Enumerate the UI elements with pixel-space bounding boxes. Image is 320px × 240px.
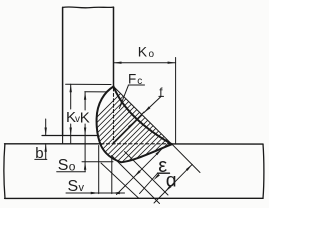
- Sv right arrow (points left): [112, 192, 120, 194]
- weld face curve (concave, thick): [114, 87, 172, 145]
- horizontal plate top edge hidden under weld (dashed): [101, 143, 172, 145]
- diagonal line L3: [101, 163, 139, 199]
- Kv dimension shaft upper: [70, 84, 72, 109]
- b bottom arrow: [45, 144, 47, 152]
- svg-text:v: v: [79, 182, 85, 194]
- throat line from root to face: [113, 112, 144, 143]
- horizontal plate right end: [262, 144, 265, 198]
- epsilon leader line: [140, 173, 158, 194]
- Kv extension line (from weld top vertex): [66, 83, 111, 85]
- f label underline: [159, 95, 164, 97]
- throat line arrow on face curve: [128, 122, 135, 129]
- K / So dimension shaft upper: [84, 92, 86, 110]
- Sv dimension line left part with label underline: [66, 192, 99, 194]
- horizontal plate top edge left: [5, 143, 100, 145]
- N0 lower arrow on L1: [134, 170, 141, 177]
- svg-text:S: S: [58, 157, 69, 174]
- b dimension upper shaft: [45, 119, 47, 136]
- Sv left arrow (points right): [91, 192, 99, 194]
- f leader arrow: [144, 106, 151, 112]
- dimension Ko line: [114, 62, 176, 64]
- a line upper arrow on B: [186, 164, 193, 171]
- b dimension lower shaft: [45, 144, 47, 160]
- b label underline: [35, 158, 47, 160]
- So label underline: [57, 171, 86, 173]
- horizontal plate top edge right: [172, 143, 263, 145]
- b top arrow: [45, 128, 47, 136]
- Ko left arrow: [114, 62, 122, 64]
- hidden plate right edge inside weld (dashed): [113, 88, 115, 144]
- K bottom arrow: [84, 128, 86, 136]
- diagonal line B (face line extended beyond toe): [172, 144, 200, 173]
- dimension Ko right extension line: [175, 58, 177, 144]
- K top arrow: [84, 92, 86, 100]
- Sv dimension line right tail: [112, 192, 125, 194]
- So arrow (up): [84, 162, 86, 170]
- diagonal line L2: [125, 152, 169, 196]
- epsilon label underline: [158, 172, 170, 174]
- svg-text:c: c: [137, 76, 142, 87]
- Fc label underline: [128, 84, 144, 86]
- perpendicular dimension line N0: [117, 149, 163, 195]
- svg-text:ɑ: ɑ: [166, 169, 177, 191]
- svg-text:K: K: [80, 109, 90, 126]
- Ko right arrow: [168, 62, 176, 64]
- K / So dimension shaft lower: [84, 124, 86, 172]
- Fc leader line: [119, 85, 128, 109]
- Sv left extension line: [98, 146, 100, 194]
- N0 top arrow on fusion curve: [156, 149, 163, 156]
- svg-text:o: o: [69, 160, 76, 174]
- Kv dimension shaft lower: [70, 124, 72, 144]
- svg-text:S: S: [68, 178, 79, 195]
- vertical plate right edge: [113, 7, 115, 86]
- svg-text:F: F: [128, 72, 136, 87]
- horizontal plate bottom edge: [5, 197, 263, 199]
- Sv dimension line middle: [99, 192, 112, 194]
- vertical plate left edge: [62, 7, 64, 135]
- a dimension line N2: [154, 164, 192, 203]
- epsilon leader arrow: [153, 174, 160, 181]
- Kv bottom arrow: [70, 128, 72, 136]
- Fc leader arrow: [119, 101, 123, 109]
- Kv top arrow: [70, 84, 72, 92]
- weld fusion boundary curve (left bulge and bottom dip): [97, 87, 172, 163]
- vertical plate left edge tick to surface: [62, 136, 64, 144]
- vertical plate top edge (freehand break line): [63, 6, 114, 9]
- f leader line: [144, 97, 161, 113]
- diagonal line L1 through deepest penetration region: [112, 156, 160, 204]
- horizontal plate left end: [4, 144, 5, 199]
- a line lower arrow on L2: [165, 185, 172, 192]
- svg-text:b: b: [35, 145, 43, 162]
- arrowheads: [45, 62, 193, 195]
- svg-text:o: o: [149, 49, 155, 60]
- K extension line (from fusion curve): [85, 91, 107, 93]
- vertical plate bottom edge with extension for b: [42, 135, 98, 137]
- weld hatching: [85, 80, 237, 232]
- svg-text:K: K: [138, 44, 148, 60]
- weld face chord line V-T: [114, 87, 172, 145]
- So tangent line at deepest penetration: [82, 161, 113, 163]
- Sv right extension line: [111, 158, 113, 194]
